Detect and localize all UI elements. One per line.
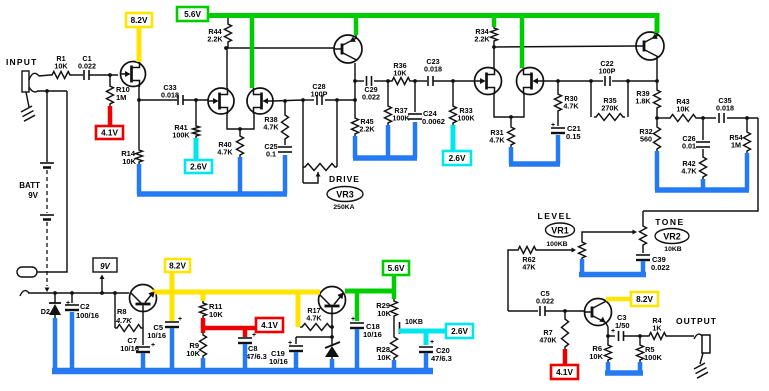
label VR2 — [655, 229, 689, 244]
wire — [325, 99, 355, 101]
trace 8.2V yellow Q10 — [606, 297, 632, 302]
trace 8.2V yellow bottom — [152, 272, 320, 327]
potentiometer VR1 — [579, 240, 586, 260]
svg-text:100K: 100K — [172, 131, 190, 140]
output jack J2 — [702, 335, 710, 353]
svg-text:VR3: VR3 — [336, 190, 354, 200]
voltage box 4.1V — [256, 318, 283, 332]
svg-text:100/16: 100/16 — [76, 311, 99, 320]
node — [556, 79, 560, 83]
svg-text:VR2: VR2 — [663, 232, 681, 242]
svg-text:10K: 10K — [377, 309, 391, 318]
node — [638, 334, 642, 338]
svg-text:10K: 10K — [377, 353, 391, 362]
wire — [606, 323, 608, 336]
svg-text:10K: 10K — [589, 352, 603, 361]
node — [606, 334, 610, 338]
wire — [668, 334, 702, 339]
trace 4.1V red — [108, 106, 113, 127]
svg-text:4.7K: 4.7K — [489, 136, 505, 145]
svg-text:0.0062: 0.0062 — [422, 117, 445, 126]
wire — [656, 56, 658, 81]
wire — [698, 117, 716, 119]
wire — [624, 335, 647, 337]
node — [353, 98, 357, 102]
svg-text:2.6V: 2.6V — [449, 154, 466, 163]
transistor Q4 — [334, 35, 362, 63]
node — [655, 116, 659, 120]
node — [224, 46, 228, 50]
resistor R8 — [115, 293, 143, 332]
capacitor C18 — [350, 316, 382, 339]
wire — [240, 114, 254, 129]
wire — [412, 80, 427, 82]
capacitor C19 — [269, 337, 303, 366]
wire — [656, 30, 658, 36]
label LEVEL — [538, 211, 573, 221]
svg-text:5.6V: 5.6V — [388, 264, 405, 273]
trace 8.2V yellow — [137, 27, 142, 62]
wire VR3 right — [336, 100, 338, 167]
node — [655, 79, 659, 83]
svg-text:0.022: 0.022 — [362, 93, 380, 102]
wire — [139, 99, 177, 101]
svg-text:0.022: 0.022 — [78, 62, 96, 71]
trace ground blue rail1 — [137, 155, 287, 194]
resistor R6 — [589, 336, 611, 362]
voltage box 8.2V — [165, 259, 190, 272]
label 100KB — [546, 241, 567, 248]
wire — [72, 74, 83, 76]
svg-text:0.1: 0.1 — [266, 150, 276, 159]
svg-text:OUTPUT: OUTPUT — [676, 316, 717, 326]
svg-text:10KB: 10KB — [405, 319, 423, 326]
svg-text:2.6V: 2.6V — [190, 163, 207, 172]
node — [108, 73, 112, 77]
wire — [494, 94, 511, 117]
transistor Q6 — [517, 68, 544, 95]
voltage box 8.2V — [631, 292, 658, 306]
svg-text:0.022: 0.022 — [536, 297, 554, 306]
svg-text:0.018: 0.018 — [424, 65, 442, 74]
resistor R28 — [376, 335, 397, 362]
node — [492, 45, 496, 49]
resistor R10 — [107, 75, 130, 106]
svg-text:10K: 10K — [676, 105, 690, 114]
trace 5.6V green rail — [208, 13, 657, 88]
transistor Q8 arrow — [149, 292, 155, 298]
svg-text:+: + — [178, 316, 182, 323]
label VR1 — [546, 223, 575, 237]
transistor Q3 — [247, 88, 273, 114]
capacitor C23 — [424, 57, 442, 86]
resistor R40 — [217, 129, 243, 157]
svg-text:10/16: 10/16 — [120, 344, 139, 353]
node — [353, 79, 357, 83]
wire — [628, 80, 657, 82]
svg-text:47K: 47K — [522, 263, 536, 272]
svg-text:0.01: 0.01 — [682, 142, 696, 151]
svg-text:+: + — [151, 342, 155, 349]
wire — [545, 310, 584, 312]
svg-text:10K: 10K — [209, 310, 223, 319]
svg-text:4.7K: 4.7K — [681, 167, 697, 176]
svg-text:D2: D2 — [41, 307, 50, 316]
voltage box 5.6V — [177, 7, 208, 21]
capacitor C26 — [682, 118, 710, 151]
transistor Q7 — [636, 32, 664, 60]
node — [45, 89, 49, 93]
resistor R44 — [207, 18, 231, 48]
resistor R43 — [668, 97, 698, 122]
input jack J1 — [22, 71, 29, 92]
svg-text:10/16: 10/16 — [269, 357, 288, 366]
battery BATT 9V — [19, 91, 54, 292]
svg-text:R8: R8 — [117, 307, 127, 316]
svg-text:DRIVE: DRIVE — [329, 174, 360, 184]
resistor R35 — [591, 81, 628, 121]
transistor Q10 — [585, 299, 612, 326]
capacitor C39 — [636, 247, 670, 272]
wire — [374, 80, 390, 82]
node — [509, 115, 513, 119]
capacitor C5 — [147, 316, 182, 340]
wire — [37, 91, 67, 272]
trace 2.6V cyan — [451, 125, 456, 152]
node — [301, 98, 305, 102]
transistor Q9 arrow — [338, 293, 344, 299]
node — [194, 98, 198, 102]
transistor Q5 — [475, 68, 502, 95]
svg-text:100P: 100P — [311, 90, 328, 99]
capacitor C22 — [591, 59, 628, 86]
svg-text:4.7K: 4.7K — [563, 102, 579, 111]
svg-text:1/50: 1/50 — [615, 321, 630, 330]
node — [563, 309, 567, 313]
svg-text:100K: 100K — [392, 114, 410, 123]
svg-text:+: + — [66, 300, 70, 307]
wire — [29, 73, 50, 80]
voltage box 8.2V — [126, 13, 152, 27]
label 250KA — [333, 204, 354, 211]
svg-text:4.7K: 4.7K — [306, 314, 322, 323]
node — [413, 79, 417, 83]
wire — [303, 99, 314, 101]
svg-text:10K: 10K — [54, 62, 68, 71]
resistor R42 — [681, 149, 706, 179]
resistor R31 — [489, 117, 514, 147]
node — [238, 127, 242, 131]
voltage box 4.1V — [96, 126, 123, 139]
potentiometer VR3 — [303, 164, 337, 184]
svg-text:4.7K: 4.7K — [263, 123, 279, 132]
wire — [226, 47, 334, 49]
voltage box 5.6V — [383, 261, 409, 275]
wire — [494, 46, 636, 47]
svg-text:4.1V: 4.1V — [261, 321, 278, 330]
resistor R34 — [474, 18, 497, 47]
wire — [20, 291, 129, 296]
wire — [89, 74, 118, 76]
wire — [582, 230, 637, 241]
wire — [511, 94, 524, 117]
wire — [138, 85, 140, 100]
svg-text:2.2K: 2.2K — [207, 35, 223, 44]
label OUTPUT — [676, 316, 717, 326]
svg-text:2.2K: 2.2K — [474, 35, 490, 44]
node — [451, 79, 455, 83]
wire — [433, 80, 474, 82]
resistor R38 — [263, 101, 288, 141]
trace 2.6V cyan bottom — [399, 331, 447, 345]
node — [701, 116, 705, 120]
connector — [17, 267, 37, 277]
wire — [543, 80, 591, 82]
resistor R37 — [385, 81, 411, 125]
transistor Q9 — [319, 287, 346, 315]
trace ground blue VR1 C39 — [579, 259, 646, 275]
trace 4.1V red bottom — [201, 318, 257, 337]
resistor R45 — [352, 116, 376, 136]
capacitor C25 — [264, 141, 292, 159]
svg-text:250KA: 250KA — [333, 204, 354, 211]
svg-text:270K: 270K — [601, 104, 619, 113]
trace ground blue rail3 — [509, 135, 560, 164]
capacitor C3 — [611, 313, 630, 341]
svg-text:5.6V: 5.6V — [184, 10, 201, 19]
label 10KB — [664, 246, 681, 253]
svg-text:10K: 10K — [393, 69, 407, 78]
svg-text:+: + — [351, 316, 355, 323]
zener diode D3 — [325, 342, 340, 361]
wire — [606, 300, 608, 301]
capacitor C21 — [551, 113, 581, 141]
node — [53, 291, 117, 295]
svg-text:1.8K: 1.8K — [635, 97, 651, 106]
resistor R36 — [390, 61, 412, 85]
resistor R41 — [172, 100, 199, 140]
wire — [142, 312, 144, 328]
resistor R5 — [637, 336, 663, 362]
transistor Q8 — [130, 285, 157, 313]
wire — [643, 118, 758, 211]
svg-text:100P: 100P — [599, 67, 616, 76]
svg-text:4.1V: 4.1V — [101, 129, 118, 138]
wire — [296, 336, 332, 338]
svg-text:10/16: 10/16 — [363, 330, 382, 339]
capacitor C5b — [536, 289, 554, 316]
svg-text:0.018: 0.018 — [716, 104, 734, 113]
wire — [331, 314, 333, 346]
voltage box 4.1V — [551, 365, 578, 379]
capacitor C1 — [78, 54, 96, 80]
wire — [538, 248, 576, 253]
svg-text:10K: 10K — [186, 349, 200, 358]
svg-text:470K: 470K — [539, 336, 557, 345]
svg-text:0.022: 0.022 — [651, 263, 670, 272]
trace ground blue rail2 — [353, 122, 417, 158]
wire — [493, 47, 495, 68]
wire — [273, 100, 303, 101]
svg-text:4.1V: 4.1V — [556, 368, 573, 377]
voltage box 2.6V — [443, 151, 471, 165]
potentiometer VR2 — [640, 211, 647, 247]
resistor R33 — [450, 81, 476, 125]
capacitor C20 — [419, 339, 452, 363]
svg-text:47/6.3: 47/6.3 — [246, 352, 267, 361]
wire — [226, 48, 228, 88]
svg-text:VR1: VR1 — [551, 226, 569, 236]
trace ground blue rail4 — [655, 151, 749, 190]
wire VR3 left — [302, 100, 304, 183]
trace 5.6V green bottom — [345, 274, 394, 321]
capacitor C28 — [311, 82, 328, 105]
svg-text:47/6.3: 47/6.3 — [431, 354, 452, 363]
capacitor C33 — [161, 83, 183, 105]
svg-text:100K: 100K — [644, 353, 663, 362]
svg-text:TONE: TONE — [655, 217, 684, 227]
svg-text:9V: 9V — [100, 262, 110, 271]
capacitor C29 — [355, 76, 380, 102]
label INPUT — [6, 57, 38, 67]
trace 4.1V red R7 — [563, 349, 568, 366]
label VR3 — [327, 187, 363, 202]
svg-text:4.7K: 4.7K — [115, 316, 132, 325]
voltage box 9V — [93, 258, 117, 293]
ground — [694, 353, 708, 378]
resistor R39 — [635, 81, 660, 110]
transistor Q1 — [120, 61, 146, 87]
wire — [354, 63, 356, 116]
wire — [656, 110, 658, 125]
svg-text:8.2V: 8.2V — [636, 295, 653, 304]
svg-text:4.7K: 4.7K — [217, 148, 233, 157]
ground — [21, 92, 35, 121]
resistor R29 — [376, 299, 397, 318]
capacitor C8 — [238, 332, 267, 361]
node — [745, 116, 749, 120]
svg-text:100K: 100K — [457, 114, 475, 123]
wire — [657, 117, 668, 119]
diode D2 — [41, 293, 61, 320]
svg-text:560: 560 — [640, 135, 652, 144]
resistor R17 — [300, 306, 332, 331]
svg-text:C2: C2 — [80, 302, 90, 311]
svg-text:8.2V: 8.2V — [169, 262, 186, 271]
svg-text:1M: 1M — [116, 93, 126, 102]
wire — [508, 310, 538, 312]
capacitor C24 — [408, 81, 445, 126]
node — [137, 98, 141, 102]
resistor R32 — [639, 125, 660, 151]
svg-text:9V: 9V — [28, 191, 38, 200]
svg-text:8.2V: 8.2V — [131, 16, 148, 25]
wire — [29, 87, 67, 92]
label TONE — [655, 217, 684, 227]
svg-text:10/16: 10/16 — [147, 331, 166, 340]
potentiometer wiper — [394, 318, 423, 335]
node — [330, 325, 334, 339]
resistor R54 — [729, 118, 750, 153]
svg-text:2.6V: 2.6V — [451, 327, 468, 336]
wire — [608, 335, 615, 337]
svg-text:INPUT: INPUT — [6, 57, 38, 67]
resistor R4 — [647, 316, 668, 340]
node — [626, 79, 630, 83]
resistor R1 — [50, 54, 72, 79]
voltage box 2.6V — [446, 324, 473, 338]
svg-text:2.2K: 2.2K — [359, 125, 375, 134]
svg-text:LEVEL: LEVEL — [538, 211, 573, 221]
node — [283, 99, 287, 103]
voltage box 2.6V — [185, 160, 212, 173]
trace 2.6V cyan — [194, 138, 199, 161]
svg-text:0.018: 0.018 — [161, 91, 179, 100]
resistor R7 — [539, 311, 568, 349]
node — [335, 98, 339, 102]
svg-text:100KB: 100KB — [546, 241, 567, 248]
svg-text:+: + — [430, 339, 434, 346]
trace ground blue rail bottom — [52, 312, 433, 371]
wire — [355, 30, 357, 39]
capacitor C7 — [120, 328, 155, 353]
capacitor C35 — [716, 96, 734, 123]
capacitor C2 — [65, 293, 99, 320]
trace ground blue R6 R5 — [605, 362, 643, 373]
resistor R62 — [508, 247, 538, 312]
node — [386, 79, 390, 83]
wire — [227, 114, 240, 129]
svg-text:10KB: 10KB — [664, 246, 681, 253]
resistor R9 — [186, 333, 206, 358]
svg-text:0.15: 0.15 — [566, 132, 581, 141]
transistor Q2 — [208, 88, 234, 114]
svg-text:1M: 1M — [731, 141, 741, 150]
resistor R11 — [200, 301, 224, 319]
node — [589, 79, 593, 83]
trace ground blue — [121, 100, 142, 166]
svg-text:1K: 1K — [652, 324, 662, 333]
label DRIVE — [329, 174, 360, 184]
wire — [727, 117, 758, 119]
wire — [183, 99, 208, 101]
svg-text:10K: 10K — [122, 157, 136, 166]
resistor R30 — [555, 81, 580, 113]
svg-text:BATT: BATT — [19, 181, 40, 190]
